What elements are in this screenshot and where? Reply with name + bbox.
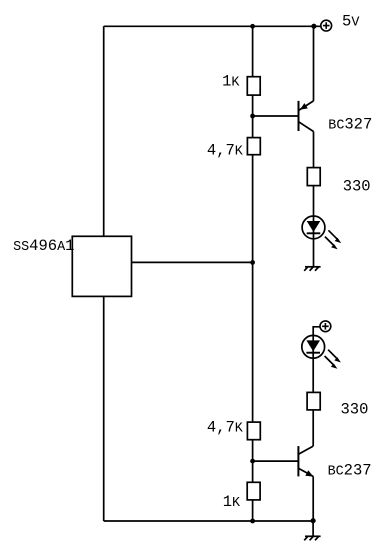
svg-text:BC327: BC327 — [328, 116, 372, 134]
svg-text:1K: 1K — [222, 72, 240, 90]
resistor R6 1K (bottom) — [247, 482, 260, 500]
transistor Q1 BC327 PNP — [299, 101, 314, 132]
resistor R5 4,7K (bottom) — [247, 422, 260, 440]
IC U1 SS496A1 box — [72, 236, 131, 296]
node junction SS496A1 pin / middle bus — [250, 260, 255, 265]
transistor Q2 BC237 NPN — [298, 446, 313, 477]
wire base of BC327 — [253, 115, 299, 117]
resistor R4 330 (bottom) — [307, 392, 320, 410]
svg-text:4,7K: 4,7K — [207, 418, 244, 436]
ground top — [304, 267, 320, 271]
wire emitter BC327 to 5V rail — [313, 26, 315, 101]
wire bottom rail — [104, 520, 313, 522]
wire bottom rail to ground — [312, 521, 314, 536]
node junction top rail / middle bus — [250, 24, 255, 29]
ground bottom — [304, 536, 320, 540]
node junction R6 / bottom rail — [250, 519, 255, 524]
wire top rail from left branch to 5V terminal — [104, 25, 321, 27]
wire supply terminal to LED2 — [313, 327, 320, 336]
svg-text:5V: 5V — [342, 12, 359, 30]
LED D1 — [302, 216, 341, 249]
wire base of BC237 — [253, 460, 299, 462]
svg-text:1K: 1K — [223, 493, 241, 511]
wire R4 to collector BC237 — [312, 410, 314, 446]
svg-text:330: 330 — [341, 401, 369, 419]
node junction base BC327 / middle bus — [250, 114, 255, 119]
wire left vertical from top rail to SS496A1 top pin — [103, 26, 105, 236]
node junction at 5V terminal — [311, 24, 316, 29]
wire R3 to LED1 and LED1 to ground — [313, 186, 315, 267]
wire collector BC327 to R3 — [313, 132, 315, 168]
supply terminal plus (bottom LED) — [320, 321, 331, 332]
wire SS496A1 right pin to middle bus — [132, 261, 253, 263]
svg-text:SS496A1: SS496A1 — [13, 237, 74, 255]
wire LED2 through to R4 — [312, 335, 314, 392]
svg-text:4,7K: 4,7K — [207, 141, 244, 159]
supply terminal 5V circle with plus — [321, 20, 332, 31]
node junction emitter / bottom rail — [311, 518, 316, 523]
resistor R1 1K (top) — [247, 77, 260, 95]
svg-text:330: 330 — [343, 177, 371, 195]
LED D2 — [302, 335, 341, 368]
node junction base BC237 / middle bus — [250, 459, 255, 464]
svg-text:BC237: BC237 — [328, 461, 372, 479]
wire middle vertical bus — [252, 26, 254, 521]
wire left vertical from SS496A1 bottom pin to bottom rail — [103, 296, 105, 521]
resistor R3 330 (top) — [307, 168, 320, 186]
resistor R2 4,7K (top) — [247, 138, 260, 155]
wire emitter BC237 to bottom rail — [312, 476, 314, 521]
